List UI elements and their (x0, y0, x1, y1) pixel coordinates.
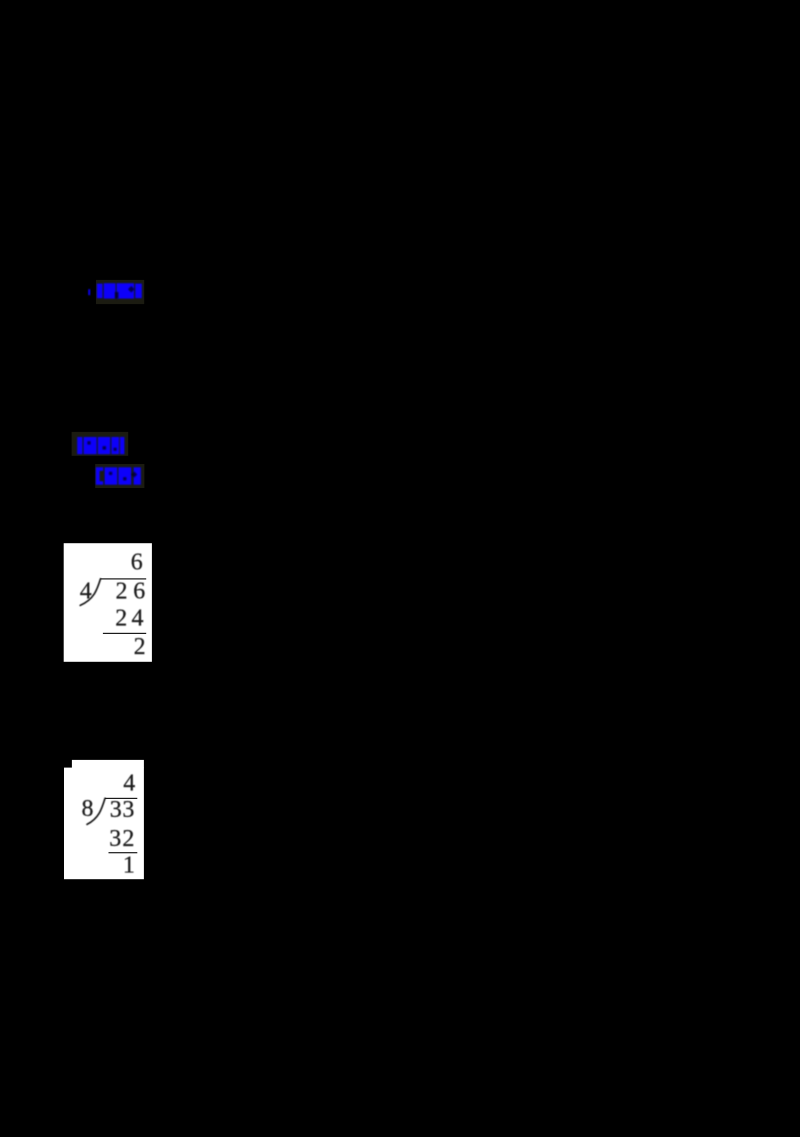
svg-text:3: 3 (122, 797, 134, 823)
svg-text:1: 1 (123, 852, 135, 878)
box1 division bracket curve (80, 579, 100, 606)
link 2 blue text blob (77, 437, 124, 454)
svg-text:8: 8 (82, 796, 94, 822)
link 3 dark hover box (95, 464, 144, 488)
svg-text:4: 4 (80, 579, 92, 605)
white image box 1 (26 divided by 4) (64, 543, 152, 662)
box2 vinculum line (105, 798, 137, 799)
box1 subtraction line (103, 633, 146, 634)
link 1 blue text blob (97, 283, 142, 298)
white image box 2 top strip (notched corner) (72, 760, 144, 768)
svg-text:4: 4 (132, 605, 144, 631)
svg-text:6: 6 (131, 549, 143, 575)
link 1 blue fragment left tick (88, 289, 90, 295)
box2 division bracket curve (87, 798, 105, 824)
link 1 dark holes in glyphs (115, 286, 135, 299)
svg-text:2: 2 (116, 579, 128, 605)
svg-text:2: 2 (134, 634, 146, 660)
svg-text:6: 6 (133, 579, 145, 605)
white image box 2 (33 divided by 8) main rect (64, 768, 144, 880)
link 2 dark holes in glyphs (87, 441, 116, 451)
svg-text:4: 4 (123, 771, 135, 797)
box1 vinculum line (100, 578, 146, 579)
svg-text:3: 3 (109, 826, 121, 852)
box2 subtraction line (109, 852, 138, 853)
link 3 blue text blob (96, 467, 141, 484)
link 3 dark holes in glyphs (109, 472, 137, 481)
link 2 dark hover box (72, 432, 129, 456)
svg-text:2: 2 (115, 605, 127, 631)
svg-text:2: 2 (122, 826, 134, 852)
link 1 dark hover box (96, 280, 144, 304)
svg-text:3: 3 (110, 797, 122, 823)
